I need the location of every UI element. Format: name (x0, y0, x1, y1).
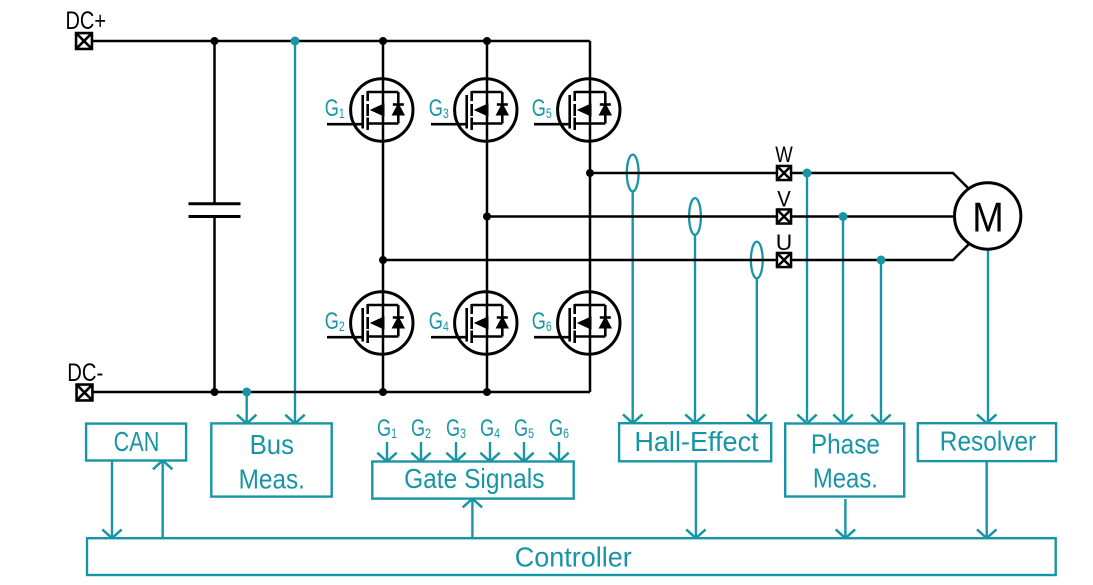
arrowhead V sensor into Hall-Effect (685, 414, 704, 423)
svg-text:Resolver: Resolver (940, 426, 1036, 457)
node V sense tap (839, 212, 848, 221)
arrowhead G1 into Gate Signals (377, 453, 396, 462)
labels G1-G6 above gate signals (377, 415, 569, 442)
transistor Q1 (327, 79, 413, 141)
wire resolver out (986, 461, 988, 537)
arrowhead W sense into Phase Meas (797, 415, 816, 424)
svg-text:W: W (775, 142, 793, 167)
svg-text:V: V (777, 186, 791, 211)
block Gate Signals (372, 462, 573, 499)
svg-text:Gate Signals: Gate Signals (404, 463, 544, 494)
wire gate G6 stem (558, 442, 560, 461)
current sensor W (627, 155, 639, 422)
arrowhead V sense into Phase Meas (833, 415, 852, 424)
wire phase W (590, 173, 969, 189)
transistor Q2 (327, 292, 413, 354)
wire resolver sense (987, 250, 989, 421)
capacitor C1 (189, 204, 241, 217)
transistor Q3 (431, 79, 517, 141)
wire phase U sense (880, 260, 882, 421)
wire CAN rx (161, 462, 163, 538)
svg-text:CAN: CAN (114, 426, 160, 457)
arrowhead U sensor into Hall-Effect (747, 414, 766, 423)
node W sense tap (803, 169, 812, 178)
node leg1 bottom (379, 388, 387, 396)
wire leg2 (486, 41, 489, 392)
svg-text:Meas.: Meas. (813, 462, 878, 493)
arrowhead motor into Resolver (977, 414, 996, 423)
wire hall out (695, 461, 697, 537)
transistor Q5 (534, 79, 620, 141)
wire gate cmd (471, 500, 473, 538)
arrowhead W sensor into Hall-Effect (623, 414, 642, 423)
wire gate G5 stem (523, 442, 525, 461)
svg-text:M: M (972, 193, 1004, 240)
wire capacitor branch top (213, 41, 216, 203)
node phase V tap (483, 213, 491, 221)
block Bus Meas (211, 423, 331, 496)
arrowhead bus+ into Bus Meas (285, 415, 304, 424)
arrowhead G5 into Gate Signals (514, 453, 533, 462)
node leg2 top (483, 37, 491, 45)
terminal W (777, 166, 791, 180)
arrowhead bus- into Bus Meas (237, 415, 256, 424)
wire gate G4 stem (489, 442, 491, 461)
terminal DC- (77, 385, 93, 401)
wire CAN tx (111, 461, 113, 538)
svg-text:Controller: Controller (515, 542, 632, 573)
svg-text:Meas.: Meas. (239, 463, 305, 494)
svg-text:Phase: Phase (811, 429, 880, 460)
svg-text:DC-: DC- (67, 359, 103, 387)
block CAN (86, 424, 186, 461)
wire bus- sense (245, 392, 247, 423)
svg-text:Bus: Bus (250, 429, 294, 460)
arrowhead Controller into Gate Signals (463, 499, 482, 508)
wire DC+ top rail (93, 40, 590, 43)
wire capacitor branch bottom (213, 218, 216, 392)
arrowhead Controller into CAN (153, 461, 172, 470)
arrowhead Hall-Effect into Controller (686, 529, 705, 538)
wire phase W sense (806, 173, 808, 421)
signal lines teal (112, 41, 988, 538)
arrowhead CAN into Controller (102, 529, 121, 538)
node phase W tap (586, 169, 594, 177)
svg-text:Hall-Effect: Hall-Effect (634, 426, 759, 457)
wire phase U (383, 244, 969, 260)
arrowhead U sense into Phase Meas (871, 415, 890, 424)
terminal U (777, 253, 791, 267)
wire gate G3 stem (455, 442, 457, 461)
block Phase Meas (785, 424, 904, 497)
terminal V (777, 209, 791, 223)
wire gate G2 stem (420, 442, 422, 461)
node leg1 top (379, 37, 387, 45)
transistor Q6 (534, 292, 620, 354)
arrowhead G6 into Gate Signals (549, 453, 568, 462)
current sensor V (689, 198, 701, 422)
node cap top (211, 37, 219, 45)
svg-text:U: U (776, 230, 793, 255)
block Controller (87, 538, 1056, 575)
current sensor U (751, 242, 763, 422)
wire phase V sense (842, 217, 844, 422)
wire DC- bottom rail (93, 391, 590, 394)
svg-text:DC+: DC+ (66, 7, 107, 35)
node bus- sense tap (242, 388, 251, 397)
arrowhead G4 into Gate Signals (480, 453, 499, 462)
motor M (955, 183, 1021, 249)
block Hall-Effect (619, 423, 771, 461)
wire gate G1 stem (386, 442, 388, 461)
arrowhead Phase Meas into Controller (836, 529, 855, 538)
node phase U tap (379, 256, 387, 264)
node cap bottom (211, 388, 219, 396)
wire bus+ sense (294, 41, 296, 423)
node bus+ sense tap (291, 37, 300, 46)
wire leg3 (589, 41, 592, 392)
transistor Q4 (431, 292, 517, 354)
arrowhead Resolver into Controller (977, 529, 996, 538)
wire leg1 (382, 41, 385, 392)
node U sense tap (877, 256, 886, 265)
arrowhead G2 into Gate Signals (411, 453, 430, 462)
arrowhead G3 into Gate Signals (446, 453, 465, 462)
terminal DC+ (76, 33, 92, 49)
wire phase out (844, 499, 846, 537)
node leg2 bottom (483, 388, 491, 396)
block Resolver (918, 423, 1056, 461)
wire phase V (487, 215, 954, 218)
